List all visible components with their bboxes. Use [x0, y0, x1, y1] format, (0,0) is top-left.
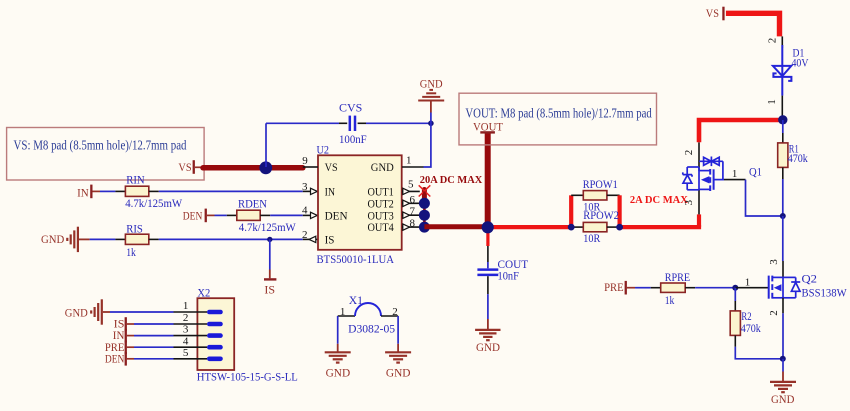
- svg-text:1: 1: [406, 154, 412, 166]
- svg-text:CVS: CVS: [339, 100, 362, 114]
- pin 5 line: [402, 190, 420, 192]
- capacitor CVS: [350, 116, 355, 131]
- svg-text:IN: IN: [77, 185, 89, 199]
- svg-text:10R: 10R: [583, 231, 600, 245]
- pin Q1-1: [724, 179, 746, 181]
- note box VS: [7, 128, 205, 181]
- svg-text:1: 1: [340, 306, 346, 318]
- svg-text:8: 8: [410, 217, 416, 229]
- svg-text:Q1: Q1: [749, 165, 762, 179]
- node D1-R1 junction: [778, 115, 787, 124]
- Q2 body diode branch: [783, 276, 796, 278]
- svg-text:DEN: DEN: [183, 209, 203, 223]
- pin X2-2: [174, 323, 208, 325]
- wire IN to RIN: [100, 190, 115, 192]
- pin Q1-2: [698, 142, 700, 171]
- ground GND (X1 left): [325, 352, 351, 362]
- svg-text:GND: GND: [65, 305, 88, 319]
- svg-text:4.7k/125mW: 4.7k/125mW: [125, 196, 183, 210]
- wire IN to X2: [134, 335, 174, 337]
- pin 7 arrow: [403, 212, 410, 218]
- pin CVS-1: [339, 122, 347, 124]
- svg-text:5: 5: [183, 347, 189, 359]
- Q1 gate plate: [713, 169, 715, 190]
- svg-text:DEN: DEN: [105, 351, 125, 365]
- X2 pad 2: [207, 322, 223, 327]
- svg-text:RPRE: RPRE: [665, 270, 690, 284]
- wire Q2 source down: [782, 313, 784, 359]
- pin RIS-2: [149, 238, 159, 240]
- wire DEN to X2: [134, 358, 174, 360]
- wire RPOW to Q1 red: [620, 225, 702, 229]
- svg-text:4.7k/125mW: 4.7k/125mW: [239, 220, 297, 234]
- pin X1-1: [338, 315, 355, 317]
- port PRE: [604, 280, 627, 294]
- node OUT junction 6: [419, 198, 430, 209]
- wire GND to RIS: [90, 238, 116, 240]
- wire VS top red: [726, 13, 780, 36]
- ground GND (Q2): [770, 382, 796, 392]
- node R1-gate junction: [780, 213, 786, 219]
- D1 zener symbol: [773, 45, 792, 96]
- pin 9 line: [303, 166, 318, 168]
- port IN (X2): [113, 328, 127, 342]
- connector X2: [197, 286, 298, 384]
- pin Q2-1: [735, 287, 768, 289]
- svg-text:2: 2: [392, 306, 398, 318]
- port IN: [77, 185, 92, 200]
- svg-text:BSS138W: BSS138W: [802, 286, 848, 300]
- svg-text:VS: M8 pad (8.5mm hole)/12.7mm: VS: M8 pad (8.5mm hole)/12.7mm pad: [14, 138, 187, 153]
- svg-text:GND: GND: [386, 365, 411, 379]
- wire CVS riser: [265, 123, 267, 167]
- wire GND to X2 pin1: [103, 311, 110, 313]
- pin COUT-2: [487, 276, 489, 294]
- svg-text:OUT3: OUT3: [368, 210, 395, 222]
- Q1 gate-source zener pair: [699, 160, 723, 162]
- pin 2 arrow: [309, 236, 316, 242]
- wire gate node to Q2: [782, 216, 784, 261]
- wire GND to pin1: [424, 123, 431, 167]
- wire COUT top: [487, 262, 489, 268]
- svg-text:RDEN: RDEN: [238, 197, 267, 211]
- svg-text:3: 3: [683, 199, 695, 205]
- svg-text:OUT1: OUT1: [368, 187, 395, 199]
- svg-text:X2: X2: [197, 286, 210, 300]
- pin RPOW1-2: [607, 194, 620, 196]
- pin 5 arrow: [403, 188, 410, 194]
- X2 pad 3: [207, 333, 223, 338]
- resistor R2: [730, 288, 761, 347]
- diode D1: [766, 36, 809, 117]
- svg-text:GND: GND: [41, 232, 65, 246]
- wire PRE to X2: [134, 346, 174, 348]
- svg-text:RIN: RIN: [126, 172, 145, 186]
- power port IS: [264, 279, 276, 296]
- node Q2 source junction: [780, 356, 786, 362]
- svg-text:2A DC MAX: 2A DC MAX: [630, 194, 688, 206]
- resistor RPOW1: [583, 191, 607, 200]
- svg-text:RPOW1: RPOW1: [583, 177, 618, 191]
- wire OUT to VOUT thick: [424, 224, 488, 229]
- pin RDEN-2: [260, 214, 270, 216]
- wire X1-1 to GND: [337, 316, 339, 344]
- pin 6 line: [402, 202, 424, 204]
- X2 pad 5: [207, 357, 223, 362]
- resistor RPRE: [661, 283, 686, 292]
- wire X1-2 to GND: [397, 316, 399, 344]
- Q2 body arrow: [774, 284, 782, 291]
- wire IN stub: [93, 190, 101, 192]
- wire RPRE to Q2 gate: [695, 287, 735, 289]
- pin Q2-3: [782, 261, 784, 277]
- pin RDEN-1: [227, 214, 237, 216]
- X1 arc: [355, 303, 381, 316]
- pin RIS-1: [115, 238, 125, 240]
- svg-text:VS: VS: [178, 160, 191, 174]
- svg-text:OUT2: OUT2: [368, 198, 395, 210]
- svg-text:3: 3: [302, 181, 308, 193]
- svg-text:2: 2: [767, 38, 779, 44]
- pin RPRE-2: [685, 287, 695, 289]
- node RPOW right junction: [616, 224, 623, 231]
- node CVS-GND junction: [428, 121, 434, 127]
- node Q2 gate junction: [732, 285, 738, 291]
- Q1 source-drain vertical: [698, 167, 700, 190]
- wire IS to X2: [134, 323, 174, 325]
- X2 pad 1: [207, 310, 223, 315]
- svg-text:U2: U2: [317, 143, 330, 157]
- Q2 gate plate: [768, 276, 770, 299]
- svg-text:HTSW-105-15-G-S-LL: HTSW-105-15-G-S-LL: [197, 370, 298, 384]
- wire RPOW1 left riser: [569, 195, 573, 229]
- node RPOW left junction: [568, 224, 575, 231]
- Q1 body diode branch: [687, 166, 699, 168]
- svg-text:1: 1: [732, 168, 738, 180]
- resistor RIN: [125, 186, 148, 196]
- svg-text:GND: GND: [771, 392, 795, 406]
- pin RPOW1-1: [571, 194, 583, 196]
- pin X2-3: [174, 335, 208, 337]
- port IS (X2): [114, 317, 127, 331]
- Q1 gate connect: [714, 179, 724, 181]
- svg-text:5: 5: [408, 179, 414, 191]
- ground GND (X2 pin1): [91, 299, 102, 324]
- no-ERC cross on OUT1: [419, 185, 431, 196]
- svg-text:100nF: 100nF: [339, 132, 367, 146]
- wire VOUT vertical thick: [485, 133, 491, 227]
- wire CVS left: [266, 122, 339, 124]
- IC U2 BTS50010-1LUA: [317, 143, 402, 266]
- Q2 vertical: [782, 277, 784, 297]
- svg-text:3: 3: [768, 259, 780, 265]
- svg-text:10nF: 10nF: [498, 269, 520, 283]
- wire RIN to U2 pin3: [159, 190, 303, 192]
- pin 8 line: [402, 226, 424, 228]
- svg-text:PRE: PRE: [604, 280, 624, 294]
- wire COUT stub red: [486, 227, 489, 246]
- svg-text:GND: GND: [476, 340, 500, 354]
- Q2 MOSFET symbol: [769, 276, 801, 299]
- svg-text:RPOW2: RPOW2: [583, 208, 619, 222]
- Q1 body arrow: [701, 176, 710, 183]
- wire CVS right: [366, 122, 431, 124]
- wire IS drop: [269, 239, 271, 269]
- port PRE (X2): [105, 340, 127, 354]
- Q1 drain stub: [699, 170, 710, 172]
- wire GND stub to RIS: [79, 238, 90, 240]
- pin 1 line: [402, 166, 424, 168]
- svg-text:1: 1: [766, 99, 778, 105]
- svg-text:470k: 470k: [788, 151, 808, 165]
- wire RPOW1 right riser: [617, 195, 621, 229]
- wire DEN stub: [207, 214, 215, 216]
- pin 3 arrow: [311, 188, 318, 194]
- svg-text:2: 2: [768, 310, 780, 316]
- ground GND (X1 right): [385, 352, 411, 362]
- svg-text:4: 4: [183, 335, 189, 347]
- wire to GND (Q2): [782, 359, 784, 372]
- wire Q1 gate to R1: [746, 180, 783, 216]
- wire GND stub up: [430, 113, 432, 124]
- pin 7 line: [402, 214, 424, 216]
- pin 6 arrow: [403, 200, 410, 206]
- wire OUT column stub: [422, 190, 427, 198]
- svg-text:7: 7: [410, 206, 416, 218]
- wire COUT to GND: [487, 294, 489, 319]
- pin Q2-2: [782, 298, 784, 314]
- svg-text:1: 1: [745, 276, 751, 288]
- wire RDEN to U2 pin4: [270, 214, 303, 216]
- ground GND (left of RIS): [67, 227, 78, 252]
- node OUT junction 7: [419, 210, 430, 221]
- wire PRE stub: [127, 346, 134, 348]
- svg-text:2: 2: [183, 312, 189, 324]
- node VS-CVS junction: [259, 161, 272, 174]
- pin 8 arrow: [403, 224, 410, 230]
- Q1 MOSFET symbol: [683, 157, 724, 192]
- pin RPRE-1: [651, 287, 661, 289]
- svg-text:VOUT: M8 pad (8.5mm hole)/12.7: VOUT: M8 pad (8.5mm hole)/12.7mm pad: [465, 106, 652, 121]
- svg-text:IN: IN: [325, 187, 336, 199]
- svg-text:VS: VS: [325, 162, 338, 174]
- pin X1-2: [381, 315, 398, 317]
- jumper X1: [338, 293, 398, 335]
- node OUT junction 8: [419, 222, 430, 233]
- svg-text:9: 9: [302, 155, 308, 167]
- port DEN (X2): [105, 351, 127, 365]
- wire DEN stub: [127, 358, 134, 360]
- ground GND (COUT): [475, 330, 500, 340]
- pin D1-1: [781, 96, 783, 118]
- pin CVS-2: [358, 122, 366, 124]
- pin X2-1: [174, 311, 208, 313]
- svg-text:VS: VS: [706, 6, 719, 20]
- resistor RPOW2: [583, 222, 607, 231]
- pin COUT-1: [487, 246, 489, 262]
- wire VOUT to RPOW red: [488, 225, 571, 229]
- svg-text:GND: GND: [371, 162, 394, 174]
- svg-text:6: 6: [410, 194, 416, 206]
- svg-text:3: 3: [183, 324, 189, 336]
- svg-text:2: 2: [302, 229, 308, 241]
- Q2 channel segments: [771, 276, 773, 282]
- transistor Q2: [735, 259, 847, 316]
- capacitor COUT: [477, 270, 498, 275]
- svg-text:BTS50010-1LUA: BTS50010-1LUA: [317, 252, 395, 266]
- svg-text:470k: 470k: [741, 321, 761, 335]
- pin 4 arrow: [311, 212, 318, 218]
- pin RPOW2-2: [607, 226, 620, 228]
- D1 cathode line: [781, 45, 783, 96]
- wire PRE to RPRE: [635, 287, 651, 289]
- svg-text:IS: IS: [325, 235, 335, 247]
- pin 2 line: [303, 238, 318, 240]
- pin 4 line: [303, 214, 318, 216]
- pin RPOW2-1: [571, 226, 583, 228]
- power port VS (left): [178, 160, 195, 174]
- svg-text:RIS: RIS: [126, 222, 143, 236]
- port DEN: [183, 209, 207, 223]
- wire R2 to Q2 source: [735, 347, 783, 359]
- wire R1 to gate node: [782, 179, 784, 216]
- X2 pad 4: [207, 345, 223, 350]
- transistor Q1: [683, 142, 762, 214]
- pin RIN-2: [149, 190, 159, 192]
- svg-text:40V: 40V: [792, 55, 809, 69]
- svg-text:DEN: DEN: [325, 211, 349, 223]
- wire IS stub: [127, 323, 134, 325]
- svg-text:OUT4: OUT4: [368, 222, 395, 234]
- svg-text:20A DC MAX: 20A DC MAX: [420, 174, 483, 186]
- wire VS thick: [195, 166, 203, 168]
- ground GND (above U2, inverted): [418, 90, 444, 101]
- svg-text:1k: 1k: [126, 245, 136, 259]
- pin X2-4: [174, 346, 208, 348]
- pin D1-2: [781, 36, 783, 48]
- pin RIN-1: [115, 190, 125, 192]
- resistor R1: [778, 120, 808, 179]
- svg-text:Q2: Q2: [802, 272, 818, 286]
- node IS junction: [267, 237, 272, 242]
- wire RIS to U2 pin2: [159, 238, 303, 240]
- svg-text:IS: IS: [264, 282, 275, 296]
- note box VOUT: [459, 93, 657, 145]
- Q2 source stub: [772, 297, 783, 299]
- svg-text:1k: 1k: [665, 293, 675, 307]
- svg-text:GND: GND: [326, 365, 351, 379]
- wire DEN to RDEN: [215, 214, 227, 216]
- power port VS (top right): [706, 6, 725, 20]
- wire Q1 riser red: [697, 214, 701, 227]
- svg-text:2: 2: [683, 150, 695, 156]
- Q1 source stub: [699, 188, 710, 190]
- wire OUT column: [423, 191, 426, 227]
- node VOUT junction: [482, 221, 494, 233]
- pin Q1-3: [698, 189, 700, 214]
- power port VOUT: [473, 119, 504, 133]
- pin 3 line: [303, 190, 318, 192]
- wire Q1 top red: [699, 120, 783, 142]
- D1 zener triangle: [773, 66, 791, 76]
- D1 zener bar: [773, 73, 791, 81]
- svg-text:4: 4: [302, 205, 308, 217]
- Q1 channel segments: [709, 169, 711, 175]
- wire IN stub: [127, 335, 134, 337]
- svg-text:GND: GND: [420, 76, 443, 90]
- svg-text:1: 1: [183, 300, 189, 312]
- resistor RDEN: [237, 210, 260, 220]
- resistor RIS: [125, 234, 148, 244]
- pin X2-5: [174, 358, 208, 360]
- svg-text:D3082-05: D3082-05: [348, 321, 395, 335]
- wire PRE stub: [627, 287, 635, 289]
- Q2 drain stub: [772, 276, 783, 278]
